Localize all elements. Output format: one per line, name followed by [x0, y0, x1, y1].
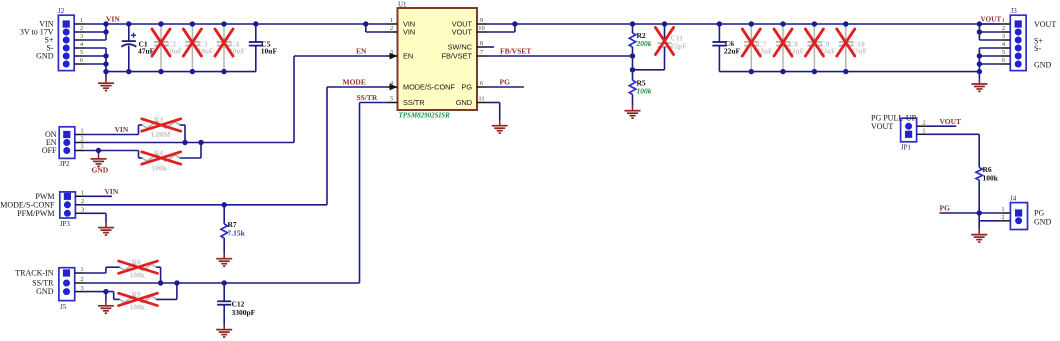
svg-text:8: 8	[480, 40, 483, 47]
wire J3 tie verticals	[977, 21, 1001, 79]
wire FB node vertical	[630, 56, 635, 80]
svg-text:EN: EN	[403, 52, 413, 61]
svg-text:5: 5	[80, 49, 83, 56]
resistor R2 200k	[629, 21, 651, 58]
net label GND JP2	[92, 166, 109, 175]
svg-text:PG: PG	[940, 204, 951, 213]
wire VIN to U1 pin2 branch	[363, 21, 388, 32]
wire MODE net	[85, 87, 389, 208]
svg-text:9: 9	[480, 17, 483, 24]
resistor R7 7.15k	[221, 205, 246, 254]
capacitor C12 3300pF	[217, 283, 255, 325]
ground U1	[492, 121, 508, 133]
svg-text:11: 11	[478, 96, 484, 103]
J2 input connector	[58, 7, 85, 71]
svg-text:2: 2	[922, 119, 925, 126]
wire J2 pin6	[85, 63, 107, 65]
svg-text:GND: GND	[36, 52, 54, 61]
op IC U1 TPSM82902SISR	[388, 1, 487, 120]
svg-text:GND: GND	[1034, 61, 1052, 70]
svg-text:J4: J4	[1010, 195, 1017, 203]
capacitor C5 10uF	[249, 21, 278, 71]
svg-text:100k: 100k	[130, 271, 146, 280]
wire JP3 pin1 VIN	[85, 195, 113, 197]
wire EN net	[85, 56, 389, 145]
svg-text:100k: 100k	[983, 174, 999, 183]
resistor R9 100k DNP	[85, 283, 177, 312]
svg-text:1: 1	[390, 17, 393, 24]
net label VOUT JP1	[940, 117, 962, 126]
wire JP1 pin2 VOUT	[927, 125, 957, 127]
svg-text:2: 2	[390, 25, 393, 32]
JP1 PG pull-up jumper	[901, 118, 927, 151]
net label PG J4	[940, 204, 951, 213]
svg-text:JP3: JP3	[60, 220, 71, 228]
svg-text:VOUT: VOUT	[940, 117, 962, 126]
JP3 side labels	[0, 192, 55, 218]
J4 side labels	[1034, 209, 1052, 227]
svg-text:SS/TR: SS/TR	[357, 93, 378, 102]
svg-text:S-: S-	[1034, 44, 1041, 53]
capacitor C2 10uF DNP	[152, 21, 183, 74]
svg-text:J3: J3	[1011, 7, 1018, 15]
capacitor C1 47uF polarized	[121, 21, 154, 74]
J3 side labels	[1034, 20, 1056, 70]
wire FB/VSET net	[487, 55, 633, 57]
svg-text:1: 1	[80, 17, 83, 24]
svg-text:2: 2	[80, 276, 83, 283]
svg-text:SS/TR: SS/TR	[403, 98, 425, 107]
svg-text:1: 1	[1001, 206, 1004, 213]
J3 output connector	[1000, 7, 1026, 71]
ground J2	[98, 78, 114, 90]
svg-text:3: 3	[80, 33, 83, 40]
svg-text:3300pF: 3300pF	[232, 308, 256, 317]
svg-text:5: 5	[1002, 49, 1005, 56]
svg-text:OFF: OFF	[42, 146, 57, 155]
svg-text:VIN: VIN	[106, 15, 120, 24]
svg-text:1: 1	[1002, 17, 1005, 24]
svg-text:1.00M: 1.00M	[151, 130, 171, 139]
svg-text:SW/NC: SW/NC	[448, 43, 472, 52]
resistor R5 100k	[629, 79, 651, 106]
resistor R6 100k	[976, 165, 999, 213]
svg-text:7.15k: 7.15k	[228, 229, 246, 238]
svg-text:5: 5	[390, 96, 393, 103]
svg-text:10: 10	[478, 25, 485, 32]
svg-text:10uF: 10uF	[261, 47, 278, 56]
wire PG net J4	[939, 210, 1000, 229]
ground J3	[971, 79, 987, 91]
wire JP1 pin1 to R6	[927, 134, 980, 167]
net label VOUT	[981, 16, 1002, 24]
svg-text:1: 1	[922, 128, 925, 135]
J4 PG connector	[1000, 195, 1027, 230]
J2 side labels	[20, 20, 54, 61]
wire J2 pin3	[85, 39, 107, 41]
wire VIN rail	[85, 23, 389, 25]
svg-text:VIN: VIN	[403, 28, 415, 37]
JP3 mode jumper	[60, 190, 85, 229]
svg-text:FB/VSET: FB/VSET	[442, 52, 473, 61]
capacitor C11 22pF DNP	[633, 21, 688, 70]
svg-text:100k: 100k	[130, 303, 146, 312]
net label FB/VSET	[500, 47, 531, 56]
wire VOUT rail	[487, 23, 1001, 25]
resistor R8 100k DNP	[85, 258, 161, 284]
svg-text:1: 1	[80, 266, 83, 273]
capacitor C4 10uF DNP	[215, 21, 246, 74]
svg-text:JP2: JP2	[60, 160, 71, 168]
wire J2 pin5	[85, 55, 107, 57]
wire JP2 pin3 OFF	[85, 148, 139, 154]
wire GND tie vertical	[103, 48, 108, 79]
ground R5	[625, 106, 641, 118]
wire PG stub from U1	[487, 86, 524, 88]
ground JP2	[91, 154, 107, 166]
J5 side labels	[15, 269, 54, 297]
ground C12	[216, 325, 232, 337]
svg-text:JP1: JP1	[901, 144, 912, 152]
svg-text:200k: 200k	[636, 39, 652, 48]
wire VIN tie vertical	[103, 21, 108, 40]
wire J2 pin4	[85, 47, 107, 49]
ground JP3	[98, 223, 114, 235]
wire input GND rail	[106, 71, 256, 73]
capacitor C9 22uF DNP	[805, 21, 836, 74]
JP2 side labels	[42, 130, 57, 155]
svg-text:J5: J5	[60, 303, 67, 311]
svg-text:3: 3	[1002, 33, 1005, 40]
wire SS/TR net	[85, 103, 389, 286]
net label VIN JP3	[105, 187, 119, 196]
svg-text:VIN: VIN	[115, 125, 129, 134]
svg-text:2: 2	[1002, 25, 1005, 32]
capacitor C3 10uF DNP	[183, 21, 214, 74]
J5 track connector	[59, 266, 85, 311]
svg-text:1: 1	[80, 128, 83, 135]
net label VIN JP2	[115, 125, 129, 134]
net label EN	[356, 47, 367, 56]
svg-text:2: 2	[81, 198, 84, 205]
svg-text:PFM/PWM: PFM/PWM	[17, 209, 54, 218]
svg-text:100k: 100k	[637, 87, 652, 96]
wire U1 pin10 branch	[487, 21, 518, 32]
capacitor C8 22uF DNP	[774, 21, 805, 74]
svg-text:GND: GND	[456, 98, 472, 107]
svg-text:100k: 100k	[152, 164, 168, 173]
svg-text:VOUT: VOUT	[981, 16, 1002, 24]
svg-text:VOUT: VOUT	[1034, 20, 1056, 29]
ground R7	[216, 254, 232, 266]
wire JP3 pin3 gnd	[85, 213, 107, 222]
wire SW/NC stub	[487, 46, 495, 48]
net label MODE	[343, 78, 366, 87]
net label VIN	[106, 15, 120, 24]
wire J4 pin2 gnd	[980, 220, 1000, 222]
wire output GND rail	[719, 71, 979, 73]
svg-text:TPSM82902SISR: TPSM82902SISR	[399, 112, 451, 120]
svg-text:MODE/S-CONF: MODE/S-CONF	[403, 83, 455, 92]
svg-text:22uF: 22uF	[724, 47, 741, 56]
capacitor C10 47uF DNP	[837, 21, 868, 74]
svg-text:GND: GND	[36, 287, 54, 296]
svg-text:PG: PG	[500, 78, 511, 87]
svg-text:1: 1	[81, 190, 84, 197]
capacitor C6 22uF	[712, 21, 740, 71]
svg-text:VIN: VIN	[105, 187, 119, 196]
svg-text:3: 3	[80, 285, 83, 292]
svg-text:J2: J2	[58, 7, 65, 15]
svg-text:PG: PG	[461, 83, 472, 92]
JP1 side labels	[871, 114, 917, 132]
resistor R4 100k DNP	[139, 143, 202, 173]
svg-text:GND: GND	[92, 166, 109, 175]
svg-text:MODE: MODE	[343, 78, 366, 87]
resistor R3 1.00M DNP	[139, 115, 186, 143]
svg-text:U1: U1	[398, 1, 407, 9]
capacitor C7 22uF DNP	[742, 21, 773, 74]
JP2 enable jumper	[59, 127, 84, 168]
svg-text:22pF: 22pF	[671, 42, 688, 51]
svg-text:FB/VSET: FB/VSET	[500, 47, 531, 56]
svg-text:2: 2	[80, 25, 83, 32]
net label PG	[500, 78, 511, 87]
wire JP2 pin1 VIN	[85, 134, 139, 136]
svg-text:VOUT: VOUT	[871, 122, 893, 131]
net label SS/TR	[357, 93, 378, 102]
svg-text:3: 3	[81, 207, 84, 214]
wire U1 GND pin11	[487, 103, 500, 121]
svg-text:2: 2	[80, 136, 83, 143]
svg-text:3: 3	[80, 144, 83, 151]
svg-text:EN: EN	[356, 47, 367, 56]
svg-text:2: 2	[1001, 214, 1004, 221]
ground J4	[971, 230, 987, 242]
svg-text:PG: PG	[1034, 209, 1044, 218]
svg-text:VOUT: VOUT	[452, 28, 473, 37]
ground J5	[98, 301, 114, 313]
svg-text:GND: GND	[1034, 218, 1052, 227]
svg-text:TRACK-IN: TRACK-IN	[15, 269, 53, 278]
wire J2 pin2	[85, 31, 107, 33]
